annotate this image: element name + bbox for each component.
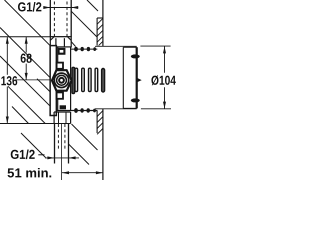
dimension Ø104 (95, 46, 171, 109)
dimension 68 (25, 37, 27, 80)
bottom pipe hidden bore (dashed) (58, 124, 65, 150)
finished wall surface line (102, 0, 104, 180)
ribbed protection cover slats (72, 67, 105, 93)
bottom pipe centerline (61, 124, 63, 180)
wall cavity hatch (0, 0, 98, 165)
top union nut (50, 37, 71, 47)
side port circles (54, 73, 68, 87)
svg-text:Ø104: Ø104 (151, 73, 177, 88)
top supply pipe G1/2 (50, 0, 71, 37)
sleeve clip upper (131, 54, 140, 58)
bottom reference line (body bottom) (0, 123, 71, 125)
svg-text:G1/2: G1/2 (17, 0, 41, 14)
bottom outlet pipe G1/2 (55, 124, 69, 164)
svg-text:136: 136 (1, 73, 18, 88)
side port hex (52, 70, 72, 91)
wall tile band hatch (97, 18, 103, 134)
top reference line (body top) (0, 36, 71, 38)
flush-mount sleeve box (right) (123, 47, 136, 108)
svg-text:51 min.: 51 min. (7, 165, 52, 180)
bottom union nut (54, 112, 71, 124)
top pipe hidden bore (dashed) (54, 2, 67, 37)
square port below valve (57, 92, 63, 98)
wall tile band left line (97, 18, 103, 133)
dimension 136 (6, 37, 8, 124)
screw boss top chamfer (71, 42, 75, 47)
dimension G1/2 bottom (45, 157, 79, 159)
sleeve clip lower (131, 98, 140, 102)
mounting plate (edge view) (50, 46, 56, 116)
screw block lower (60, 105, 66, 109)
dimension 51 min (62, 172, 103, 174)
horizontal centerline (15, 79, 51, 81)
dimension G1/2 bottom leader dash (38, 154, 44, 156)
screw block upper (59, 49, 65, 54)
svg-text:G1/2: G1/2 (10, 147, 35, 162)
square port above valve (57, 63, 63, 69)
top fixing screw (71, 47, 97, 52)
dimension G1/2 top (44, 7, 79, 9)
svg-text:68: 68 (20, 51, 32, 66)
spindle tip (137, 78, 142, 83)
bottom fixing screw (74, 108, 96, 113)
valve body (56, 47, 97, 111)
